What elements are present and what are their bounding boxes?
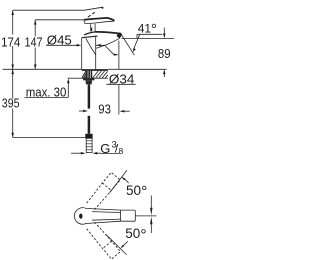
- 50 upper arc fragment: [125, 179, 129, 183]
- dim Ø45 right arrow pointing left at body edge: [96, 44, 105, 46]
- faucet solid lever: [84, 18, 114, 24]
- deck top extension line right: [108, 68, 167, 70]
- label max. 30 underline: [25, 96, 69, 98]
- dim 89 vertical top part with down arrow: [163, 28, 165, 35]
- label 41 underline: [137, 33, 162, 35]
- dim 395 top arrow: [11, 69, 14, 74]
- svg-text:Ø45: Ø45: [47, 32, 72, 47]
- deck top extension line left: [3, 68, 82, 70]
- svg-text:G: G: [100, 141, 110, 156]
- dim 395 bottom arrow: [11, 133, 14, 138]
- 50 lower arc fragment: [124, 241, 128, 245]
- svg-text:93: 93: [98, 102, 111, 117]
- faucet dashed raised lever: [85, 7, 103, 10]
- svg-text:174: 174: [1, 34, 20, 49]
- spout tip extension line y=38.4: [122, 37, 175, 39]
- wire 395 bottom extension: [13, 137, 86, 139]
- dim 89 vertical bottom part with up arrow: [163, 69, 166, 74]
- dim 174 top arrow: [11, 10, 14, 15]
- svg-text:8: 8: [119, 146, 124, 156]
- handle dashed lower: [87, 222, 121, 259]
- handle center line: [135, 215, 156, 217]
- faucet body top rim: [82, 36, 98, 38]
- washer plate: [83, 78, 94, 80]
- 50 lower arc arrowhead: [120, 245, 124, 249]
- mounting nut: [85, 80, 92, 84]
- dim 395 vertical line: [12, 69, 14, 98]
- svg-text:50°: 50°: [125, 226, 146, 244]
- 93 extension line vertical: [118, 41, 120, 70]
- 50 upper shaft and down arrow at centerline: [150, 196, 152, 209]
- dim 174 bottom arrow: [11, 65, 14, 70]
- dim 174 vertical line: [12, 10, 14, 34]
- arrow max.30 up: [67, 78, 70, 83]
- faucet spout top edge: [84, 32, 96, 35]
- faucet spout tip: [117, 33, 123, 38]
- 50 lower shaft and up arrow at centerline: [150, 217, 152, 225]
- wire leader 147 horizontal: [35, 19, 86, 21]
- leader 41 diagonal with arrow: [133, 34, 140, 50]
- G3/8 underline: [101, 152, 119, 154]
- deck block bottom line: [82, 77, 108, 79]
- 50 upper extension line: [110, 170, 127, 193]
- wire leader 174 horizontal: [13, 9, 85, 11]
- dim 147 vertical line: [34, 20, 36, 37]
- diagonal from spout tip: [122, 35, 135, 55]
- hose connector: [85, 134, 92, 139]
- deck hatch right: [93, 71, 108, 78]
- G3/8 right arrow: [93, 152, 98, 155]
- dim 147 bottom arrow: [34, 65, 37, 70]
- jog up to 41 underline: [136, 34, 138, 38]
- dim 147 top arrow: [34, 20, 37, 25]
- svg-text:89: 89: [158, 46, 171, 61]
- faucet spout underside curve B: [96, 38, 120, 48]
- faucet body left edge: [81, 38, 83, 70]
- Ø34 underline: [106, 83, 135, 85]
- handle dot: [79, 214, 82, 219]
- dim 93 left arrow outside pointing right: [79, 110, 83, 112]
- thread tail G3/8: [86, 138, 92, 152]
- 50 upper arc arrowhead: [121, 177, 125, 180]
- label Ø45 underline with right arrow: [46, 44, 78, 46]
- deck bottom extension line left: [68, 77, 83, 79]
- svg-text:max. 30: max. 30: [26, 84, 67, 99]
- handle inner taper lines: [92, 211, 121, 214]
- 50 lower extension line: [106, 235, 126, 255]
- handle inner step: [120, 210, 122, 221]
- leader max.30 vertical: [67, 83, 69, 97]
- G3/8 left arrow: [71, 152, 82, 154]
- svg-text:395: 395: [2, 95, 20, 110]
- flexible hose: [88, 84, 91, 108]
- threaded shank: [86, 71, 92, 78]
- dim 93 right arrow outside pointing left: [120, 110, 125, 113]
- svg-text:50°: 50°: [126, 183, 147, 201]
- svg-text:41°: 41°: [138, 22, 157, 38]
- faucet neck: [90, 24, 92, 31]
- deck thick top line: [82, 69, 108, 71]
- handle dashed upper: [87, 172, 121, 209]
- svg-text:Ø34: Ø34: [109, 72, 134, 87]
- deck hatch left dense: [82, 71, 89, 78]
- curved leader to spout-tip extension: [105, 45, 114, 54]
- svg-text:147: 147: [25, 34, 43, 49]
- faucet shadow curve A: [86, 38, 96, 54]
- handle top view outline: [74, 208, 135, 225]
- faucet body right edge: [95, 36, 97, 69]
